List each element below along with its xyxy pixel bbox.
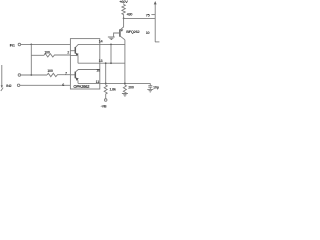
transistor Q1 BFQ262 base bar bbox=[119, 29, 121, 36]
svg-text:IN1: IN1 bbox=[10, 44, 15, 48]
IC box U1 OPA2662 bbox=[70, 39, 99, 89]
op-amp A bar bbox=[74, 47, 76, 54]
node junction 430/output bbox=[123, 18, 125, 20]
svg-text:6: 6 bbox=[62, 83, 64, 87]
wire Q1 base to ground corner bbox=[114, 33, 120, 37]
left edge mark line bbox=[1, 65, 3, 86]
wire IN2 to box bbox=[20, 84, 71, 86]
node junction 13/V6 bbox=[105, 62, 107, 64]
wire V6 bbox=[105, 63, 107, 83]
output arrow line bbox=[154, 3, 156, 42]
resistor 200 bbox=[123, 85, 126, 94]
wire branch vertical bbox=[30, 44, 32, 75]
op-amp B emitter bbox=[76, 78, 78, 81]
left edge mark slash bbox=[1, 88, 3, 91]
op-amp B base stub bbox=[70, 74, 75, 76]
resistor R1 100 bbox=[44, 54, 70, 57]
svg-text:100: 100 bbox=[47, 69, 53, 73]
node junction branch/W3 bbox=[30, 74, 32, 76]
svg-text:OPA2662: OPA2662 bbox=[73, 84, 90, 89]
op-amp A emitter arrow bbox=[76, 53, 79, 56]
wire +60V stub bbox=[123, 3, 125, 4]
svg-text:200: 200 bbox=[128, 85, 134, 89]
Q1 emitter arrow bbox=[120, 29, 123, 32]
svg-text:IN2: IN2 bbox=[6, 84, 11, 88]
svg-text:75: 75 bbox=[146, 13, 150, 17]
svg-text:13: 13 bbox=[99, 59, 103, 63]
wire +60V rail to arrow bbox=[124, 17, 156, 19]
svg-text:-VB: -VB bbox=[101, 105, 107, 109]
node junction IN1 branch bbox=[30, 44, 32, 46]
svg-text:430: 430 bbox=[127, 13, 133, 17]
ground below cap bbox=[147, 89, 153, 92]
node junction 14/V5 bbox=[110, 44, 112, 46]
svg-text:10: 10 bbox=[96, 69, 100, 73]
wire pin 13 bbox=[78, 62, 125, 64]
ground at Q1 base bbox=[108, 37, 115, 40]
op-amp B emitter down wire bbox=[77, 81, 79, 84]
left edge mark arrow bbox=[1, 85, 3, 88]
svg-text:10: 10 bbox=[146, 31, 150, 35]
op-amp A base stub bbox=[70, 50, 75, 52]
wire Q1 collector vertical bbox=[124, 40, 126, 85]
transistor Q1 collector bbox=[120, 36, 125, 40]
wire bottom bracket bbox=[155, 41, 159, 43]
svg-text:1.8k: 1.8k bbox=[109, 88, 117, 92]
svg-text:100: 100 bbox=[44, 50, 50, 54]
terminal -VB bbox=[104, 99, 107, 102]
terminal IN2 bbox=[17, 84, 20, 87]
svg-text:+60V: +60V bbox=[119, 0, 128, 4]
svg-text:2: 2 bbox=[67, 50, 69, 54]
op-amp B bar bbox=[74, 72, 76, 79]
svg-text:7: 7 bbox=[65, 72, 67, 76]
terminal mid input bbox=[18, 74, 21, 77]
svg-text:14: 14 bbox=[99, 39, 104, 43]
svg-text:10p: 10p bbox=[153, 86, 160, 90]
resistor 430 bbox=[122, 4, 125, 18]
op-amp B emitter arrow bbox=[76, 78, 79, 81]
node junction 13/V5 bbox=[110, 62, 112, 64]
node junction rail/V6 bbox=[105, 83, 107, 85]
svg-text:BFQ262: BFQ262 bbox=[126, 29, 140, 34]
wire to R1 bbox=[31, 54, 44, 56]
wire tick 75 bbox=[151, 14, 155, 16]
output arrowhead bbox=[154, 1, 157, 4]
node junction rail/200 bbox=[124, 83, 126, 85]
svg-text:11: 11 bbox=[96, 80, 100, 84]
transistor Q1 emitter bbox=[120, 18, 123, 29]
ground below 200 bbox=[122, 94, 128, 97]
op-amp A emitter wires bbox=[70, 55, 78, 63]
op-amp B collector to pin 10 bbox=[76, 70, 100, 72]
op-amp A collector to pin 14 wire bbox=[76, 44, 125, 47]
terminal IN1 bbox=[18, 43, 21, 46]
wire V5 bbox=[110, 44, 112, 63]
op-amp A emitter bbox=[76, 53, 78, 55]
wire mid input bbox=[21, 74, 47, 76]
wire IN1 to box bbox=[21, 43, 71, 45]
resistor 1.8k bbox=[104, 83, 107, 98]
resistor R2 100 bbox=[47, 73, 70, 76]
wire pin 11 rail bbox=[78, 82, 150, 84]
capacitor 10p bbox=[148, 83, 152, 89]
